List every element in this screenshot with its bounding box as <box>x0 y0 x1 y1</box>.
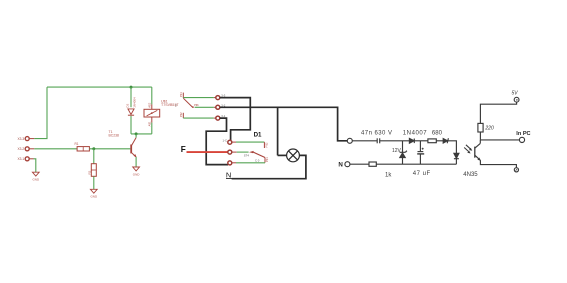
svg-text:47 uF: 47 uF <box>413 171 431 177</box>
wire top rail <box>47 86 152 88</box>
LED of optocoupler <box>454 153 459 158</box>
bottom rail <box>376 163 456 165</box>
diode D2 1N4004 <box>125 97 136 115</box>
relay coil U$1 <box>144 99 179 126</box>
svg-text:220: 220 <box>484 126 494 132</box>
svg-text:X3-2: X3-2 <box>17 147 24 151</box>
svg-text:In PC: In PC <box>516 131 530 137</box>
svg-text:GND: GND <box>133 172 141 176</box>
svg-text:680: 680 <box>432 130 443 136</box>
switch D1 lever <box>249 151 254 153</box>
wire pad 3-1 to D1 pad 3 <box>206 118 228 165</box>
connector X3-2 pin <box>17 147 34 151</box>
svg-text:R2: R2 <box>87 170 91 174</box>
terminal bottom circle <box>514 168 518 172</box>
wire emitter to bottom terminal <box>480 160 516 167</box>
svg-text:C 0: C 0 <box>255 158 260 162</box>
zener diode 12V <box>400 153 405 158</box>
svg-text:D2: D2 <box>125 103 129 107</box>
wire R2 to ground <box>93 176 95 189</box>
wire R1 to base <box>89 148 130 150</box>
pad ring 2-C <box>228 150 232 154</box>
wire collector to 220 <box>479 132 481 140</box>
wire lamp left lead <box>278 154 287 156</box>
svg-text:P$6: P$6 <box>194 103 199 107</box>
wire C1 to D-a <box>380 140 409 142</box>
terminal 5V circle <box>514 97 519 102</box>
terminal input circle <box>347 138 352 143</box>
resistor 220 <box>478 123 483 132</box>
resistor R2 <box>87 164 96 177</box>
wire collector stub <box>135 134 137 138</box>
wire relay bottom lead <box>151 123 153 134</box>
svg-text:1N4007: 1N4007 <box>403 130 427 136</box>
svg-text:X3-3: X3-3 <box>17 137 24 141</box>
capacitor 47uF branch <box>419 141 421 151</box>
wire F phase (red) <box>187 151 228 153</box>
wire input to C1 <box>352 140 377 142</box>
svg-text:P$2: P$2 <box>179 112 183 117</box>
wire lever common to pad <box>195 106 214 108</box>
wire diode bottom lead <box>130 116 132 134</box>
connector X3-1 pin <box>17 157 33 161</box>
svg-text:12V: 12V <box>392 148 402 154</box>
node collector junction <box>135 132 138 135</box>
wire from X3-3 up to top rail <box>34 87 47 139</box>
svg-text:A$2: A$2 <box>148 102 152 107</box>
node junction top rail / diode <box>130 86 133 89</box>
zener branch wire <box>402 141 404 164</box>
resistor R1 <box>75 142 90 151</box>
svg-text:1-C: 1-C <box>222 138 227 142</box>
switch D1 top pin stub <box>263 142 265 148</box>
terminal N circle <box>345 162 350 167</box>
svg-text:N: N <box>338 162 343 169</box>
switch S1 pin P$2 stub <box>182 113 184 118</box>
wire R680 to D-b <box>436 140 443 142</box>
svg-text:R1: R1 <box>75 142 79 146</box>
pad ring 3-3 <box>214 97 216 99</box>
wire X3-2 to R1 <box>34 148 77 150</box>
lamp L1 <box>287 149 300 162</box>
svg-text:S1: S1 <box>174 103 178 107</box>
wire N to 1k <box>350 163 369 165</box>
wire lamp right lead to N rail <box>232 155 306 178</box>
svg-text:GND: GND <box>32 178 40 182</box>
wire collector node to In PC <box>480 139 519 141</box>
wire D1 pad2 to lever <box>232 151 237 153</box>
svg-text:P$2: P$2 <box>264 142 268 147</box>
svg-text:47n 630 V: 47n 630 V <box>361 130 392 136</box>
plus sign 47uF <box>422 148 424 150</box>
wire junction to R2 <box>93 149 95 164</box>
wire pin P$1 to pad <box>183 97 214 99</box>
connector X3-3 pin <box>17 137 34 141</box>
svg-text:X3-1: X3-1 <box>17 157 24 161</box>
wire relay top lead <box>151 87 153 104</box>
wire D-a to R 680 <box>414 140 428 142</box>
wire bottom junction rail <box>131 133 152 135</box>
wire tee down to lamp <box>277 107 279 155</box>
pad ring 3-2 <box>214 106 216 108</box>
wire pad 3-3 to D1 pad 1 <box>220 98 251 141</box>
switch S1 lever <box>183 98 192 107</box>
wire D-b to LED branch <box>448 141 457 153</box>
svg-text:P$1: P$1 <box>265 157 269 162</box>
wire emitter to ground <box>135 157 137 167</box>
diode D-b <box>443 139 447 143</box>
svg-text:A$1: A$1 <box>148 121 152 126</box>
optocoupler light arrows <box>464 145 470 152</box>
capacitor C1 47n <box>376 138 378 143</box>
wire 220 to 5V <box>480 102 516 123</box>
transistor T1 BC238 <box>109 130 137 158</box>
svg-text:D1: D1 <box>254 132 262 139</box>
wire pin P$2 to pad <box>183 117 214 119</box>
pad ring 1-C <box>228 140 232 144</box>
svg-text:BC238: BC238 <box>109 134 119 138</box>
wire X3-1 to ground <box>34 159 36 172</box>
svg-text:1k: 1k <box>385 172 392 178</box>
label N (middle) <box>226 171 233 180</box>
svg-text:5V: 5V <box>512 90 519 96</box>
terminal In PC circle <box>519 137 524 142</box>
ground GND emitter <box>133 167 141 176</box>
ground GND R2 <box>90 189 98 198</box>
svg-text:GND: GND <box>90 195 98 199</box>
node base junction <box>92 147 95 150</box>
ground GND X3-1 <box>32 172 40 181</box>
svg-text:4N35: 4N35 <box>463 172 478 178</box>
svg-text:P$1: P$1 <box>179 92 183 97</box>
resistor 1k <box>369 162 376 166</box>
svg-text:F: F <box>181 145 186 154</box>
svg-text:ST4: ST4 <box>244 153 250 157</box>
pad ring 3-1 <box>214 117 216 119</box>
switch S1 pin P$1 stub <box>182 93 184 98</box>
wire diode top lead <box>130 87 132 107</box>
pad ring 0-C <box>228 161 232 165</box>
optocoupler transistor 4N35 <box>474 147 476 158</box>
svg-text:1N4004: 1N4004 <box>133 97 137 108</box>
wire pad 3-2 to right section <box>220 107 347 141</box>
diode D-a 1N4007 <box>409 138 414 143</box>
wire D1 pad1 to pin <box>232 141 236 143</box>
wire D1 pad3 to pin <box>232 162 236 164</box>
resistor 680 <box>428 139 436 143</box>
